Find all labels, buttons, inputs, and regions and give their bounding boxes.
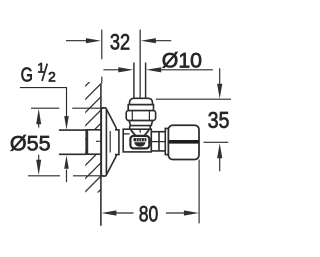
svg-text:Ø10: Ø10: [162, 49, 202, 72]
svg-text:80: 80: [139, 201, 159, 226]
svg-text:Ø55: Ø55: [10, 131, 51, 155]
svg-text:35: 35: [208, 107, 230, 133]
svg-text:2: 2: [48, 69, 56, 84]
svg-text:32: 32: [110, 30, 130, 55]
svg-text:G: G: [21, 63, 33, 86]
